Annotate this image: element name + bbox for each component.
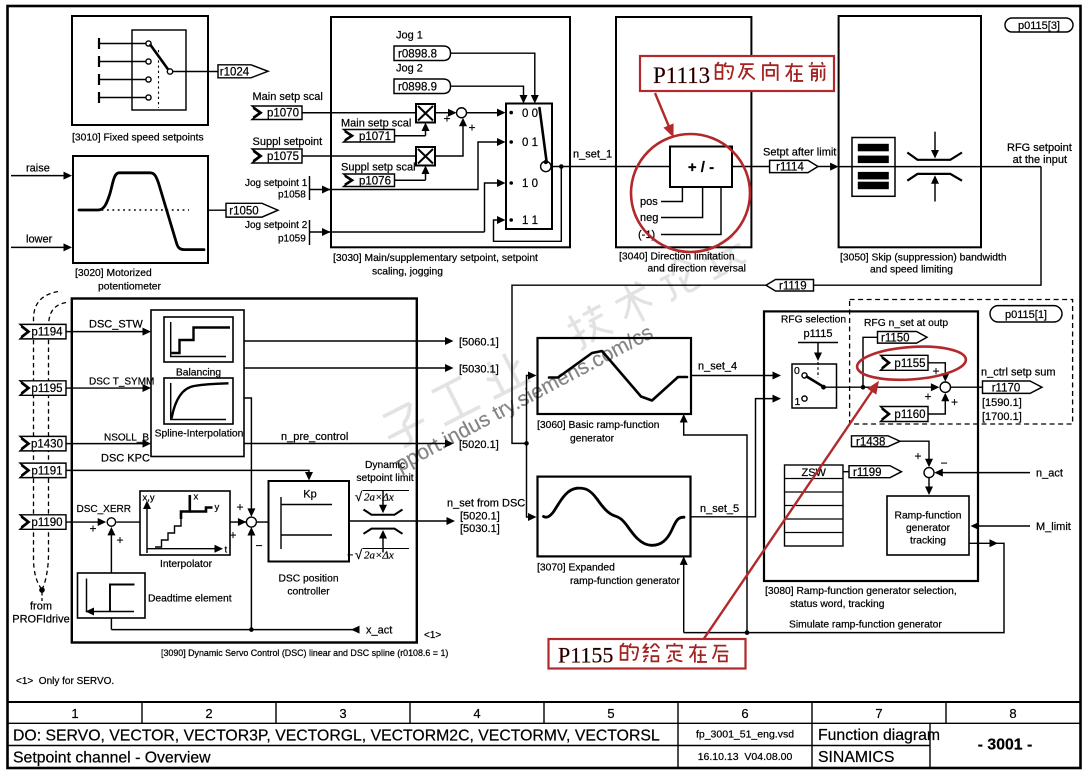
- svg-text:<1> Only for SERVO.: <1> Only for SERVO.: [16, 676, 114, 687]
- svg-text:y: y: [215, 502, 220, 513]
- svg-text:+: +: [443, 112, 450, 126]
- svg-text:Setpoint channel - Overview: Setpoint channel - Overview: [13, 750, 211, 767]
- svg-text:−: −: [347, 550, 353, 562]
- svg-text:p1075: p1075: [267, 151, 299, 163]
- svg-text:setpoint limit: setpoint limit: [356, 473, 413, 484]
- svg-text:[1590.1]: [1590.1]: [982, 397, 1022, 409]
- svg-text:+: +: [951, 395, 958, 409]
- svg-text:1: 1: [71, 706, 78, 721]
- svg-text:+ / -: + / -: [688, 159, 714, 176]
- svg-text:potentiometer: potentiometer: [98, 282, 162, 293]
- svg-text:RFG n_set at outp: RFG n_set at outp: [864, 318, 948, 329]
- svg-text:scaling, jogging: scaling, jogging: [372, 267, 443, 278]
- svg-text:[3080] Ramp-function generator: [3080] Ramp-function generator selection…: [765, 586, 957, 597]
- svg-text:Suppl setp scal: Suppl setp scal: [341, 162, 416, 174]
- svg-text:n_ctrl setp sum: n_ctrl setp sum: [981, 367, 1056, 379]
- svg-text:generator: generator: [906, 523, 951, 534]
- svg-text:p1194: p1194: [31, 327, 63, 339]
- svg-text:generator: generator: [570, 434, 615, 445]
- svg-text:DO: SERVO, VECTOR, VECTOR3P, V: DO: SERVO, VECTOR, VECTOR3P, VECTORGL, V…: [13, 728, 660, 745]
- svg-text:r1150: r1150: [881, 332, 910, 344]
- svg-text:n_set from DSC: n_set from DSC: [447, 498, 525, 510]
- svg-text:ramp-function generator: ramp-function generator: [570, 576, 680, 587]
- svg-text:Balancing: Balancing: [176, 368, 221, 379]
- svg-text:DSC KPC: DSC KPC: [101, 453, 150, 465]
- svg-text:p1070: p1070: [267, 108, 299, 120]
- svg-text:r0898.9: r0898.9: [398, 82, 437, 94]
- svg-text:SINAMICS: SINAMICS: [818, 749, 894, 766]
- svg-text:1: 1: [795, 396, 801, 408]
- svg-text:r1024: r1024: [220, 67, 250, 79]
- svg-text:[1700.1]: [1700.1]: [982, 411, 1022, 423]
- svg-text:neg: neg: [640, 212, 658, 224]
- svg-text:[5020.1]: [5020.1]: [460, 511, 500, 523]
- svg-text:√: √: [355, 547, 363, 562]
- svg-text:[3030] Main/supplementary setp: [3030] Main/supplementary setpoint, setp…: [333, 253, 538, 264]
- svg-text:M_limit: M_limit: [1036, 521, 1071, 533]
- svg-text:Spline-Interpolation: Spline-Interpolation: [155, 429, 244, 440]
- svg-text:Interpolator: Interpolator: [160, 559, 213, 570]
- svg-text:+: +: [89, 522, 96, 536]
- svg-text:[3010] Fixed speed setpoints: [3010] Fixed speed setpoints: [72, 133, 204, 144]
- svg-text:p1115: p1115: [804, 328, 833, 340]
- svg-text:n_set_4: n_set_4: [698, 361, 737, 373]
- svg-text:r1170: r1170: [992, 382, 1021, 394]
- svg-text:16.10.13 V04.08.00: 16.10.13 V04.08.00: [698, 751, 793, 763]
- svg-text:0 0: 0 0: [522, 108, 538, 120]
- svg-text:Function diagram: Function diagram: [818, 727, 940, 744]
- svg-text:RFG setpoint: RFG setpoint: [1007, 142, 1072, 154]
- svg-text:x: x: [194, 492, 199, 503]
- svg-text:[5030.1]: [5030.1]: [459, 364, 499, 376]
- svg-text:p1155: p1155: [894, 358, 925, 370]
- svg-text:Jog setpoint 2: Jog setpoint 2: [245, 220, 308, 231]
- svg-text:Kp: Kp: [303, 489, 316, 501]
- svg-text:- 3001 -: - 3001 -: [978, 737, 1032, 754]
- svg-text:+: +: [924, 390, 931, 404]
- svg-text:[3050] Skip (suppression) band: [3050] Skip (suppression) bandwidth: [840, 253, 1007, 264]
- svg-text:p1059: p1059: [278, 234, 306, 245]
- svg-text:Deadtime element: Deadtime element: [148, 594, 232, 605]
- svg-text:lower: lower: [26, 234, 53, 246]
- svg-text:[3020] Motorized: [3020] Motorized: [75, 268, 152, 279]
- svg-text:Jog setpoint 1: Jog setpoint 1: [245, 178, 308, 189]
- svg-text:P1113: P1113: [653, 63, 710, 88]
- svg-text:pos: pos: [640, 196, 658, 208]
- svg-text:p1071: p1071: [359, 131, 391, 143]
- svg-text:p1195: p1195: [31, 383, 62, 395]
- svg-text:Suppl setpoint: Suppl setpoint: [253, 136, 323, 148]
- svg-text:1 1: 1 1: [522, 215, 538, 227]
- svg-text:RFG selection: RFG selection: [781, 315, 847, 326]
- svg-text:t: t: [225, 545, 228, 556]
- svg-text:p1430: p1430: [31, 439, 63, 451]
- svg-text:+: +: [236, 500, 243, 514]
- svg-text:n_pre_control: n_pre_control: [281, 431, 348, 443]
- svg-text:and direction reversal: and direction reversal: [648, 264, 746, 275]
- svg-text:7: 7: [875, 706, 882, 721]
- svg-text:at the input: at the input: [1013, 154, 1067, 166]
- svg-text:n_act: n_act: [1036, 468, 1063, 480]
- svg-text:6: 6: [741, 706, 748, 721]
- svg-text:+: +: [468, 121, 475, 135]
- svg-text:x_act: x_act: [366, 625, 392, 637]
- svg-text:0: 0: [794, 365, 800, 377]
- svg-text:p0115[1]: p0115[1]: [1005, 309, 1047, 321]
- svg-text:p0115[3]: p0115[3]: [1018, 20, 1060, 32]
- svg-text:Dynamic: Dynamic: [365, 460, 405, 471]
- svg-text:5: 5: [607, 706, 614, 721]
- svg-text:[3070] Expanded: [3070] Expanded: [537, 563, 615, 574]
- svg-text:−: −: [255, 539, 262, 553]
- svg-text:DSC position: DSC position: [278, 574, 338, 585]
- svg-text:r1050: r1050: [229, 205, 258, 217]
- svg-text:+: +: [914, 449, 921, 463]
- svg-text:n_set_5: n_set_5: [700, 503, 739, 515]
- svg-text:Main setp scal: Main setp scal: [341, 118, 411, 130]
- svg-text:fp_3001_51_eng.vsd: fp_3001_51_eng.vsd: [696, 729, 794, 741]
- svg-text:Simulate ramp-function generat: Simulate ramp-function generator: [789, 620, 942, 631]
- svg-text:[3090] Dynamic Servo Control (: [3090] Dynamic Servo Control (DSC) linea…: [161, 648, 448, 658]
- svg-text:p1160: p1160: [894, 409, 925, 421]
- svg-text:and speed limiting: and speed limiting: [870, 265, 953, 276]
- svg-text:DSC_STW: DSC_STW: [89, 319, 143, 331]
- svg-text:r1438: r1438: [856, 436, 885, 448]
- svg-text:p1076: p1076: [359, 176, 391, 188]
- svg-text:PROFIdrive: PROFIdrive: [12, 614, 69, 626]
- svg-text:p1190: p1190: [31, 517, 62, 529]
- svg-text:2a×Δx: 2a×Δx: [364, 550, 394, 562]
- svg-text:8: 8: [1009, 706, 1016, 721]
- svg-text:n_set_1: n_set_1: [573, 149, 612, 161]
- svg-text:p1191: p1191: [31, 465, 62, 477]
- svg-text:r1114: r1114: [776, 162, 804, 174]
- svg-text:+: +: [229, 528, 236, 542]
- svg-text:2: 2: [205, 706, 212, 721]
- svg-text:Jog 2: Jog 2: [396, 63, 423, 75]
- svg-text:raise: raise: [26, 163, 50, 175]
- svg-text:tracking: tracking: [910, 536, 946, 547]
- svg-text:3: 3: [339, 706, 346, 721]
- svg-text:[5020.1]: [5020.1]: [459, 439, 499, 451]
- svg-text:p1058: p1058: [278, 190, 306, 201]
- svg-text:P1155: P1155: [558, 643, 613, 668]
- svg-text:Main setp scal: Main setp scal: [253, 91, 323, 103]
- svg-text:<1>: <1>: [424, 630, 441, 641]
- svg-text:Setpt after limit: Setpt after limit: [763, 147, 836, 159]
- svg-text:DSC_XERR: DSC_XERR: [77, 504, 131, 515]
- svg-text:controller: controller: [287, 587, 330, 598]
- svg-text:0 1: 0 1: [522, 137, 538, 149]
- svg-text:Jog 1: Jog 1: [396, 30, 423, 42]
- svg-text:[5030.1]: [5030.1]: [460, 523, 500, 535]
- svg-text:+: +: [116, 533, 123, 547]
- svg-text:[3040] Direction limitation: [3040] Direction limitation: [619, 252, 735, 263]
- svg-text:[5060.1]: [5060.1]: [459, 337, 499, 349]
- svg-text:1 0: 1 0: [522, 178, 538, 190]
- svg-text:[3060] Basic ramp-function: [3060] Basic ramp-function: [537, 420, 660, 431]
- svg-text:4: 4: [473, 706, 480, 721]
- svg-text:Ramp-function: Ramp-function: [895, 511, 962, 522]
- svg-text:x,y: x,y: [143, 493, 155, 504]
- svg-text:−: −: [940, 456, 947, 470]
- svg-text:from: from: [30, 601, 52, 613]
- svg-text:status word, tracking: status word, tracking: [790, 599, 885, 610]
- svg-text:r0898.8: r0898.8: [398, 49, 437, 61]
- svg-text:r1199: r1199: [853, 467, 882, 479]
- svg-text:r1119: r1119: [779, 280, 807, 292]
- svg-text:2a×Δx: 2a×Δx: [364, 492, 394, 504]
- svg-text:√: √: [355, 489, 363, 504]
